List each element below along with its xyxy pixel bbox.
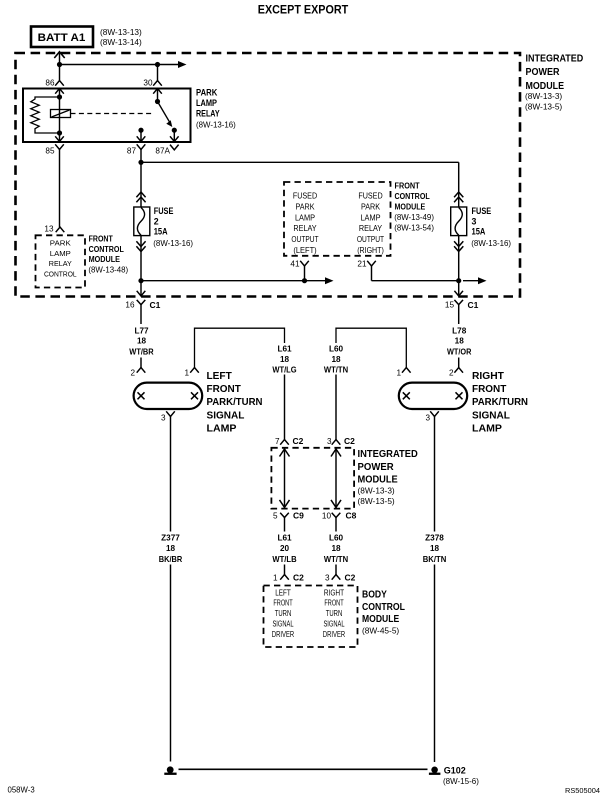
- wire continuing right with arrow: [158, 64, 185, 66]
- svg-text:BK/BR: BK/BR: [159, 555, 183, 564]
- wire to arrow under terminal 41: [141, 280, 331, 282]
- svg-text:15A: 15A: [154, 227, 168, 237]
- arrow to battery feed: [54, 52, 64, 58]
- svg-text:87: 87: [127, 147, 137, 156]
- svg-text:L78: L78: [452, 326, 467, 335]
- wire down to terminal 30: [157, 65, 159, 81]
- wire from BATT A1 to node: [59, 53, 61, 81]
- svg-text:Z378: Z378: [425, 534, 444, 543]
- svg-text:(8W-13-5): (8W-13-5): [525, 102, 562, 112]
- wire L77 to left lamp terminal 2: [140, 305, 142, 324]
- svg-text:L60: L60: [329, 534, 344, 543]
- svg-text:(8W-13-16): (8W-13-16): [196, 120, 236, 129]
- svg-text:C2: C2: [345, 573, 356, 583]
- svg-text:C2: C2: [293, 436, 304, 446]
- arrow fused output left: [325, 277, 334, 284]
- svg-text:FRONT: FRONT: [324, 599, 343, 608]
- node under terminal 21: [456, 278, 461, 283]
- svg-text:RELAY: RELAY: [293, 224, 317, 233]
- svg-text:SIGNAL: SIGNAL: [272, 620, 293, 629]
- svg-text:15: 15: [445, 300, 455, 309]
- right front park/turn signal lamp: [399, 383, 467, 409]
- svg-text:LAMP: LAMP: [472, 424, 502, 435]
- svg-text:FUSE: FUSE: [154, 206, 174, 216]
- svg-text:RIGHT: RIGHT: [324, 588, 344, 597]
- pass-through wire C2-3 to C8-10: [335, 448, 337, 509]
- svg-text:(8W-13-16): (8W-13-16): [471, 239, 511, 248]
- wire Z378 right lamp to ground: [434, 417, 436, 532]
- svg-text:BODY: BODY: [362, 589, 387, 600]
- svg-text:18: 18: [166, 544, 176, 553]
- svg-text:LAMP: LAMP: [50, 249, 71, 258]
- svg-text:MODULE: MODULE: [358, 475, 398, 486]
- svg-text:MODULE: MODULE: [395, 203, 426, 212]
- svg-text:(8W-15-6): (8W-15-6): [443, 777, 479, 786]
- svg-text:PARK: PARK: [50, 238, 71, 247]
- svg-text:3: 3: [327, 437, 332, 446]
- relay contact 87A stub: [172, 128, 177, 133]
- svg-text:WT/LG: WT/LG: [272, 366, 296, 375]
- svg-text:CONTROL: CONTROL: [395, 192, 430, 201]
- svg-text:18: 18: [280, 355, 290, 364]
- svg-text:C8: C8: [346, 511, 357, 521]
- svg-text:1: 1: [184, 369, 189, 378]
- svg-text:PARK/TURN: PARK/TURN: [472, 397, 528, 408]
- svg-text:FRONT: FRONT: [89, 235, 113, 244]
- svg-text:PARK: PARK: [361, 203, 381, 212]
- wire L78 to right lamp terminal 2: [458, 305, 460, 324]
- fused park lamp relay output box (dashed): [284, 182, 391, 256]
- wire node to terminal 30 branch: [60, 64, 158, 66]
- svg-text:2: 2: [449, 369, 454, 378]
- svg-text:87A: 87A: [155, 147, 170, 156]
- svg-text:(8W-13-3): (8W-13-3): [358, 486, 395, 496]
- svg-text:DRIVER: DRIVER: [272, 630, 295, 639]
- relay actuation dashed link: [71, 113, 154, 115]
- connector chevrons above fuse 3: [454, 192, 463, 197]
- svg-text:PARK: PARK: [196, 88, 218, 98]
- svg-text:7: 7: [275, 437, 280, 446]
- svg-text:LAMP: LAMP: [360, 213, 380, 222]
- svg-text:(8W-13-16): (8W-13-16): [153, 239, 193, 248]
- svg-text:OUTPUT: OUTPUT: [357, 235, 384, 244]
- wire fuse 2 to connector C1 terminal 16: [140, 236, 142, 296]
- ground G102: [431, 767, 438, 774]
- svg-text:FUSED: FUSED: [293, 192, 317, 201]
- relay resistor: [31, 97, 60, 133]
- svg-text:LEFT: LEFT: [275, 588, 291, 597]
- svg-text:1: 1: [396, 369, 401, 378]
- svg-text:WT/BR: WT/BR: [129, 347, 153, 356]
- svg-text:2: 2: [154, 216, 159, 226]
- svg-text:21: 21: [357, 260, 367, 269]
- svg-text:15A: 15A: [472, 227, 486, 237]
- svg-text:(8W-13-5): (8W-13-5): [358, 496, 395, 506]
- svg-text:18: 18: [137, 337, 147, 346]
- integrated power module boundary (dashed): [16, 53, 521, 297]
- svg-text:CONTROL: CONTROL: [89, 245, 124, 254]
- svg-text:WT/OR: WT/OR: [447, 347, 471, 356]
- svg-text:INTEGRATED: INTEGRATED: [526, 54, 584, 65]
- svg-text:LEFT: LEFT: [207, 371, 232, 382]
- fuse F3: [451, 207, 467, 236]
- svg-text:13: 13: [44, 225, 54, 234]
- svg-text:WT/LB: WT/LB: [272, 555, 296, 564]
- svg-text:WT/TN: WT/TN: [324, 366, 348, 375]
- svg-text:LAMP: LAMP: [196, 98, 217, 108]
- svg-text:(8W-45-5): (8W-45-5): [362, 626, 399, 636]
- svg-text:41: 41: [290, 260, 300, 269]
- wire terminal 41 to node: [304, 266, 306, 281]
- svg-text:TURN: TURN: [326, 609, 343, 618]
- svg-text:FRONT: FRONT: [395, 181, 420, 190]
- svg-text:C1: C1: [468, 300, 479, 310]
- wire Z377 left lamp to ground: [170, 417, 172, 532]
- connector chevrons below fuse 2: [136, 241, 145, 246]
- svg-text:18: 18: [455, 337, 465, 346]
- svg-text:3: 3: [472, 216, 477, 226]
- svg-text:RS505004: RS505004: [565, 786, 600, 795]
- ground bus wire: [179, 768, 428, 770]
- node above terminal 30: [155, 62, 160, 67]
- svg-text:5: 5: [273, 512, 278, 521]
- svg-text:PARK/TURN: PARK/TURN: [207, 397, 263, 408]
- wire fuse 3 to connector C1 terminal 15: [458, 236, 460, 296]
- svg-text:PARK: PARK: [295, 203, 315, 212]
- svg-text:MODULE: MODULE: [89, 255, 120, 264]
- svg-text:(RIGHT): (RIGHT): [357, 246, 384, 255]
- svg-text:(8W-13-13): (8W-13-13): [100, 27, 142, 37]
- svg-text:POWER: POWER: [358, 462, 395, 473]
- svg-text:(8W-13-54): (8W-13-54): [394, 223, 434, 232]
- wire left lamp terminal 1 to IPM C2 terminal 7: [195, 328, 285, 367]
- connector C1 terminal 15: [454, 291, 463, 296]
- svg-text:(8W-13-3): (8W-13-3): [525, 91, 562, 101]
- svg-text:L61: L61: [277, 534, 292, 543]
- svg-text:L77: L77: [134, 326, 149, 335]
- node at 87 branch: [138, 160, 143, 165]
- svg-text:SIGNAL: SIGNAL: [323, 620, 344, 629]
- svg-text:C2: C2: [344, 436, 355, 446]
- svg-text:16: 16: [125, 300, 135, 309]
- svg-text:2: 2: [130, 369, 135, 378]
- battery feed BATT A1: [31, 27, 93, 48]
- fuse F2: [134, 207, 150, 236]
- svg-text:DRIVER: DRIVER: [323, 630, 346, 639]
- relay switch common from terminal 30: [157, 89, 159, 102]
- svg-text:WT/TN: WT/TN: [324, 555, 348, 564]
- pass-through wire C2-7 to C9-5: [284, 448, 286, 509]
- svg-text:18: 18: [331, 355, 341, 364]
- relay coil wire vertical: [59, 89, 61, 143]
- svg-text:TURN: TURN: [275, 609, 292, 618]
- svg-text:10: 10: [322, 512, 332, 521]
- svg-text:Z377: Z377: [161, 534, 180, 543]
- svg-text:20: 20: [280, 544, 290, 553]
- svg-text:(8W-13-48): (8W-13-48): [88, 265, 128, 274]
- wire terminal 87 down to fuse 2: [140, 150, 142, 208]
- svg-text:RIGHT: RIGHT: [472, 371, 504, 382]
- svg-text:(8W-13-49): (8W-13-49): [394, 213, 434, 222]
- svg-text:18: 18: [430, 544, 440, 553]
- svg-text:30: 30: [143, 79, 153, 88]
- integrated power module pass-through box (dashed): [271, 448, 354, 509]
- svg-text:L60: L60: [329, 345, 344, 354]
- wire right lamp terminal 1 to IPM C2 terminal 3: [336, 328, 406, 367]
- relay contact 87 stub: [138, 128, 143, 133]
- node junction below BATT A1: [57, 62, 62, 67]
- relay coil node top: [57, 94, 62, 99]
- wire to fuse 3 branch: [141, 161, 459, 163]
- left front park/turn signal lamp: [134, 383, 203, 409]
- svg-text:FUSE: FUSE: [472, 206, 492, 216]
- svg-text:1: 1: [273, 574, 278, 583]
- svg-text:MODULE: MODULE: [362, 614, 399, 625]
- wire L61 C9-5 to BCM C2-1: [284, 518, 286, 532]
- svg-text:SIGNAL: SIGNAL: [472, 411, 510, 422]
- svg-text:FRONT: FRONT: [273, 599, 292, 608]
- svg-text:3: 3: [425, 414, 430, 423]
- svg-text:G102: G102: [444, 765, 466, 775]
- svg-text:FRONT: FRONT: [472, 384, 506, 395]
- wire L60 C8-10 to BCM C2-3: [335, 518, 337, 532]
- svg-text:(8W-13-14): (8W-13-14): [100, 37, 142, 47]
- svg-text:RELAY: RELAY: [359, 224, 383, 233]
- svg-text:RELAY: RELAY: [49, 259, 72, 268]
- svg-text:C1: C1: [150, 300, 161, 310]
- relay switch blade: [158, 102, 171, 124]
- svg-text:3: 3: [161, 414, 166, 423]
- svg-text:C9: C9: [293, 511, 304, 521]
- svg-text:3: 3: [325, 574, 330, 583]
- relay coil symbol: [51, 110, 71, 118]
- svg-text:CONTROL: CONTROL: [362, 602, 405, 613]
- svg-text:LAMP: LAMP: [207, 424, 237, 435]
- ground splice left: [167, 766, 174, 773]
- svg-text:058W-3: 058W-3: [8, 786, 35, 795]
- node under terminal 41: [302, 278, 307, 283]
- svg-text:INTEGRATED: INTEGRATED: [358, 449, 418, 460]
- connector C1 terminal 16: [137, 291, 146, 296]
- svg-text:C2: C2: [293, 573, 304, 583]
- connector chevrons above fuse 2: [136, 192, 145, 197]
- svg-text:LAMP: LAMP: [295, 213, 315, 222]
- svg-text:L61: L61: [277, 345, 292, 354]
- body control module box (dashed): [264, 586, 358, 648]
- svg-text:OUTPUT: OUTPUT: [291, 235, 318, 244]
- arrow fused output right: [478, 277, 487, 284]
- svg-text:BK/TN: BK/TN: [423, 555, 447, 564]
- svg-text:EXCEPT EXPORT: EXCEPT EXPORT: [258, 3, 349, 17]
- svg-text:FUSED: FUSED: [358, 192, 382, 201]
- relay coil node bottom: [57, 130, 62, 135]
- wire terminal 21 to fuse 3 node: [371, 266, 373, 281]
- front control module park lamp relay control box (dashed): [36, 235, 86, 287]
- wire terminal 85 to front control module: [59, 150, 61, 228]
- park lamp relay box: [23, 89, 191, 143]
- svg-text:CONTROL: CONTROL: [44, 269, 77, 278]
- node to fused park lamp relay output left: [138, 278, 143, 283]
- svg-text:RELAY: RELAY: [196, 109, 220, 119]
- svg-text:(LEFT): (LEFT): [293, 246, 317, 255]
- connector chevrons below fuse 3: [454, 241, 463, 246]
- svg-text:FRONT: FRONT: [207, 384, 241, 395]
- svg-text:POWER: POWER: [526, 67, 561, 78]
- svg-text:SIGNAL: SIGNAL: [207, 411, 245, 422]
- svg-text:86: 86: [45, 79, 55, 88]
- svg-text:18: 18: [331, 544, 341, 553]
- svg-text:BATT A1: BATT A1: [38, 32, 86, 44]
- svg-text:85: 85: [45, 147, 55, 156]
